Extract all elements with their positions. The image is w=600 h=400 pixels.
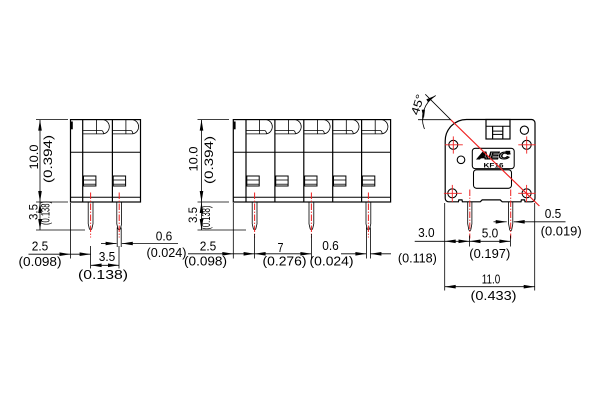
dimension 3.0 (0.118): [444, 203, 446, 291]
middle-view mid parting line: [233, 151, 390, 153]
middle-view cell 3 screw slot: [316, 120, 318, 134]
middle-view pin 3: [366, 202, 371, 230]
middle-view divider 1: [274, 120, 276, 202]
middle-view cell 5 screw slot: [374, 120, 376, 134]
dimension 10.0 (0.394) left view height: [36, 119, 68, 121]
middle-view base line: [233, 196, 390, 198]
left-view cell 2 screw slot: [125, 120, 127, 134]
top wire-entry slot: [486, 120, 510, 140]
middle-view pin 1 centerline: [254, 193, 256, 238]
left-view latch tab: [71, 122, 73, 130]
dimension 0.6 (0.024) middle view pin width: [341, 253, 366, 255]
svg-text:3.0: 3.0: [418, 226, 435, 240]
svg-text:(0.118): (0.118): [398, 251, 437, 265]
mounting hole bottom-left with centerlines: [448, 189, 457, 198]
plain hole left-middle: [457, 156, 465, 164]
middle-view cell 5 wire clamp: [362, 176, 374, 186]
middle-view cell 1 wire clamp: [247, 176, 259, 186]
middle-view cell 2 wire clamp: [276, 176, 288, 186]
svg-text:(0.394): (0.394): [41, 135, 55, 183]
lower label plate: [474, 170, 512, 189]
middle-view latch tab: [234, 122, 236, 130]
dimension 0.5 (0.019) pin thickness: [494, 221, 507, 223]
svg-text:2.5: 2.5: [200, 240, 217, 254]
left-view housing outline: [71, 120, 141, 202]
left-view pin 1 centerline: [90, 193, 92, 238]
mounting hole top-right with centerlines: [522, 140, 531, 149]
svg-text:(0.433): (0.433): [471, 289, 517, 303]
mounting hole top-left with centerlines: [449, 140, 458, 149]
middle-view divider 3: [332, 120, 334, 202]
left-view divider 1: [111, 120, 113, 202]
middle-view cell 4 screw slot: [345, 120, 347, 134]
svg-text:0.5: 0.5: [545, 207, 562, 221]
svg-text:3.5: 3.5: [26, 204, 40, 220]
svg-text:0.6: 0.6: [156, 230, 173, 244]
left-view cell 2 wire clamp: [113, 176, 125, 186]
left-view left wall: [82, 120, 84, 202]
left-view base line: [71, 196, 141, 198]
svg-text:(0.276): (0.276): [263, 255, 307, 269]
mounting hole bottom-right with centerlines: [522, 189, 531, 198]
svg-text:11.0: 11.0: [482, 273, 501, 287]
middle-view cell 1 screw slot: [259, 120, 261, 134]
dimension 11.0 (0.433) overall width: [534, 203, 536, 291]
middle-view pin 3 centerline: [367, 193, 369, 238]
svg-text:(0.024): (0.024): [310, 255, 354, 269]
dimension 10.0 (0.394) middle view height: [198, 119, 230, 121]
middle-view pin 1: [252, 202, 257, 230]
left-view cell 1 wire clamp: [84, 176, 96, 186]
svg-text:(0.019): (0.019): [541, 224, 582, 238]
svg-text:3.5: 3.5: [99, 250, 116, 264]
middle-view cell 4 wire clamp: [334, 176, 346, 186]
plain hole upper-right: [520, 126, 528, 134]
red 45-degree section line: [451, 120, 540, 206]
side pin right centerline: [510, 190, 512, 239]
dimension 2.5 (0.098) middle view: [232, 203, 234, 259]
dimension 0.6 (0.024) left view pin width: [101, 243, 117, 245]
svg-text:(0.098): (0.098): [19, 255, 62, 269]
side profile outline: [445, 120, 535, 202]
svg-text:(0.138): (0.138): [41, 201, 53, 225]
dimension 2.5 (0.098) left view: [70, 203, 72, 259]
middle-view pin 2: [309, 202, 314, 230]
dimension 5.0 (0.197) pin spacing: [509, 236, 511, 247]
dimension 7 (0.276) middle view pin pitch: [310, 234, 312, 259]
svg-text:10.0: 10.0: [27, 144, 41, 169]
middle-view divider 4: [361, 120, 363, 202]
svg-text:(0.098): (0.098): [184, 255, 227, 269]
svg-text:10.0: 10.0: [187, 146, 201, 171]
left-view mid parting line: [71, 151, 141, 153]
middle-view left wall: [245, 120, 247, 202]
svg-text:(0.394): (0.394): [202, 136, 216, 184]
middle-view housing outline: [233, 120, 390, 202]
left-view pin 2: [117, 202, 122, 230]
svg-text:0.6: 0.6: [322, 239, 339, 253]
middle-view cell 2 screw slot: [288, 120, 290, 134]
brand logo plate: [472, 148, 514, 168]
45 degree angle dimension: [418, 119, 451, 121]
svg-text:2.5: 2.5: [32, 240, 49, 254]
middle-view pin 2 centerline: [310, 193, 312, 238]
left-view cell 1 screw slot: [96, 120, 98, 134]
svg-text:3.5: 3.5: [186, 207, 200, 223]
side view pin left: [468, 202, 472, 231]
svg-text:7: 7: [278, 241, 284, 255]
svg-text:(0.138): (0.138): [78, 268, 128, 282]
svg-text:(0.197): (0.197): [469, 247, 510, 261]
svg-text:(0.024): (0.024): [147, 246, 187, 260]
left-view pin 2 centerline: [118, 193, 120, 238]
side view pin right: [509, 202, 513, 231]
svg-text:(0.138): (0.138): [201, 205, 213, 229]
middle-view cell 3 wire clamp: [305, 176, 317, 186]
side pin left centerline: [469, 190, 471, 239]
dimension 3.5 (0.138) left view pin pitch: [118, 246, 120, 269]
svg-text:5.0: 5.0: [482, 226, 499, 240]
left-view pin 1: [88, 202, 93, 230]
middle-view divider 2: [303, 120, 305, 202]
